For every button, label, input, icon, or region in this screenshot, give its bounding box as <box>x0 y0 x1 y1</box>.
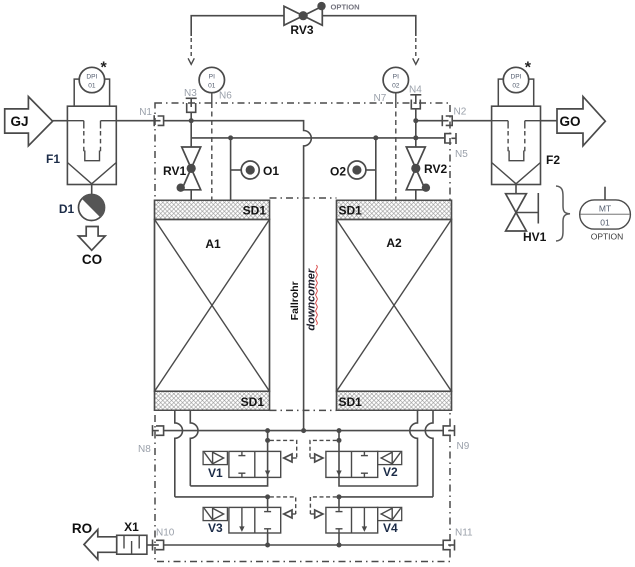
svg-text:DPI: DPI <box>86 74 97 81</box>
wire main pipe to downcomer <box>164 121 312 431</box>
wire V3 to purge line <box>267 533 269 545</box>
arrow GO outlet <box>557 97 605 146</box>
svg-text:downcomer: downcomer <box>305 268 317 330</box>
arrow GJ inlet <box>5 97 53 146</box>
svg-text:RV2: RV2 <box>424 162 447 176</box>
svg-text:01: 01 <box>208 83 216 90</box>
vessel A1 drain stem 2 with hop <box>190 410 198 486</box>
valve V2 <box>326 451 402 479</box>
svg-text:*: * <box>525 60 532 77</box>
sieve bed SD1 bottom of A1 <box>155 391 270 410</box>
sieve bed SD1 top of A2 <box>337 200 452 219</box>
svg-text:F1: F1 <box>46 152 60 166</box>
svg-text:SD1: SD1 <box>243 204 267 218</box>
svg-text:X1: X1 <box>124 520 139 534</box>
svg-text:F2: F2 <box>546 153 560 167</box>
node N11 coupling <box>443 528 473 551</box>
indicator O2 <box>330 135 378 200</box>
node N4 coupling <box>409 85 422 121</box>
svg-text:SD1: SD1 <box>339 395 363 409</box>
wire V2 feed drop <box>338 431 340 452</box>
pilot line V4 <box>310 497 336 518</box>
pilot line V3 <box>270 497 296 518</box>
node N1 coupling <box>139 107 163 126</box>
svg-text:DPI: DPI <box>511 74 522 81</box>
svg-text:N8: N8 <box>138 444 151 455</box>
svg-text:V2: V2 <box>383 465 398 479</box>
valve RV2 <box>406 147 447 200</box>
valve RV3 <box>284 2 360 37</box>
silencer X1 <box>117 520 153 554</box>
valve V3 <box>203 507 281 535</box>
arrow RO purge outlet <box>72 521 117 560</box>
sieve bed SD1 top of A1 <box>155 200 270 219</box>
junction downcomer at L1 <box>301 428 306 433</box>
wire V1 outlet loop <box>190 477 267 486</box>
pilot line V1 <box>265 438 297 462</box>
svg-text:N6: N6 <box>219 91 232 102</box>
vessel A2 drain stem 2 with hop <box>425 410 433 497</box>
node N9 coupling <box>443 425 470 452</box>
svg-text:GO: GO <box>559 114 580 129</box>
vessel A1 <box>155 219 270 391</box>
sensor MT 01 option <box>580 187 631 242</box>
dashed option line right with arrow <box>413 38 419 64</box>
svg-text:*: * <box>101 60 108 77</box>
junction V4 feed <box>337 494 342 499</box>
svg-text:N11: N11 <box>455 528 473 539</box>
filter F2 <box>492 79 561 184</box>
vessel A1 drain stem 1 with hop <box>175 410 183 497</box>
junction V4 purge <box>337 543 342 548</box>
spellcheck squiggle <box>316 265 318 325</box>
node N10 coupling <box>153 528 175 551</box>
junction V3 feed <box>265 494 270 499</box>
wire N2 pipe to F2 <box>416 120 443 122</box>
node N5 coupling <box>445 133 468 160</box>
wire V4 to purge line <box>338 533 340 545</box>
svg-text:PI: PI <box>209 74 215 81</box>
pilot line V2 <box>310 438 342 462</box>
gauge DPI 02 <box>503 60 532 93</box>
svg-text:N10: N10 <box>156 528 175 539</box>
instrument line from PI 01 <box>211 93 213 201</box>
node N2 coupling <box>442 107 466 127</box>
svg-text:A1: A1 <box>205 237 221 251</box>
svg-text:N4: N4 <box>409 85 422 96</box>
wire RV3 top pipe <box>191 16 416 36</box>
svg-text:V4: V4 <box>383 521 398 535</box>
node N8 coupling <box>138 425 164 455</box>
node N3 junction <box>189 118 194 123</box>
svg-text:01: 01 <box>88 83 96 90</box>
svg-text:PI: PI <box>393 74 399 81</box>
svg-text:O2: O2 <box>330 165 346 179</box>
wire V2 outlet loop <box>339 477 418 486</box>
riser RV2 from N4 junction <box>415 121 417 147</box>
svg-text:D1: D1 <box>59 202 75 216</box>
wire V3 feed <box>175 497 268 508</box>
wire bottom manifold L1 <box>164 430 444 432</box>
svg-text:RV1: RV1 <box>163 164 186 178</box>
junction V1 feed <box>265 428 270 433</box>
svg-text:OPTION: OPTION <box>591 232 624 242</box>
svg-text:Fallrohr: Fallrohr <box>289 281 301 320</box>
svg-text:RO: RO <box>72 521 92 536</box>
svg-text:N2: N2 <box>454 107 467 118</box>
svg-text:A2: A2 <box>386 236 402 250</box>
vessel A2 <box>337 219 452 391</box>
svg-text:SD1: SD1 <box>339 204 363 218</box>
junction V3 purge <box>265 543 270 548</box>
wire V4 feed <box>339 497 433 508</box>
indicator O1 <box>228 135 279 200</box>
wire purge line N10-N11 <box>164 544 444 546</box>
wire F1 to node N1 <box>116 120 154 122</box>
svg-text:N9: N9 <box>457 441 470 452</box>
svg-text:MT: MT <box>599 204 611 214</box>
svg-text:V1: V1 <box>208 466 223 480</box>
svg-text:SD1: SD1 <box>241 395 265 409</box>
svg-text:RV3: RV3 <box>290 23 313 37</box>
svg-text:01: 01 <box>600 218 610 228</box>
valve HV1 <box>506 185 547 245</box>
sieve bed SD1 bottom of A2 <box>337 391 452 410</box>
cross line O1-O2 at y 138 <box>191 137 445 139</box>
svg-text:02: 02 <box>392 83 400 90</box>
riser RV1 from main pipe <box>190 121 192 147</box>
gauge DPI 01 <box>79 60 107 93</box>
junction V2 feed <box>337 428 342 433</box>
svg-text:OPTION: OPTION <box>331 3 360 12</box>
svg-text:O1: O1 <box>263 164 279 178</box>
arrow CO condensate outlet <box>78 227 105 268</box>
wire F2 to GO <box>541 120 558 122</box>
filter F1 <box>46 79 116 184</box>
valve V4 <box>326 507 402 535</box>
svg-text:N7: N7 <box>374 93 387 104</box>
instrument line from PI 02 <box>395 93 397 201</box>
svg-text:CO: CO <box>82 252 102 267</box>
adsorber module boundary line top <box>270 197 337 199</box>
drain D1 <box>59 185 105 221</box>
system boundary dash-dot box <box>155 103 450 562</box>
svg-text:N5: N5 <box>455 149 468 160</box>
adsorber module boundary line bottom <box>270 409 337 411</box>
gauge PI 02 <box>383 67 408 92</box>
svg-text:HV1: HV1 <box>523 230 547 244</box>
node N3 coupling <box>184 88 197 121</box>
svg-text:GJ: GJ <box>10 114 28 129</box>
svg-text:N1: N1 <box>139 107 152 118</box>
valve V1 <box>203 451 281 480</box>
wire GJ to F1 <box>53 120 68 122</box>
svg-text:N3: N3 <box>184 88 197 99</box>
wire V1 feed drop <box>267 431 269 452</box>
vessel A2 drain stem 1 with hop <box>410 410 418 486</box>
svg-text:02: 02 <box>512 83 520 90</box>
valve RV1 <box>163 147 201 200</box>
svg-text:V3: V3 <box>208 521 223 535</box>
gauge PI 01 <box>199 67 224 92</box>
dashed option line left with arrow <box>188 38 194 64</box>
option brace <box>556 186 570 241</box>
